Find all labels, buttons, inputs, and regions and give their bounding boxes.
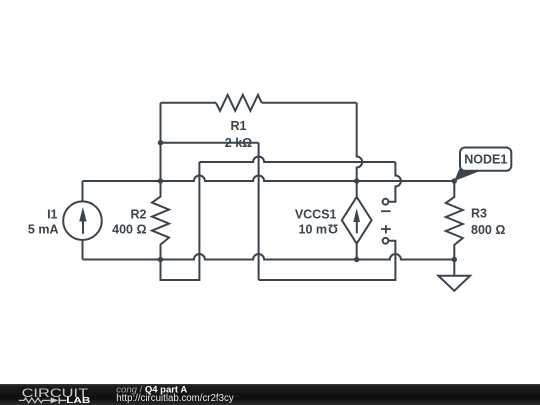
svg-text:NODE1: NODE1 — [464, 153, 507, 167]
wire: vertical x=199.4 down, left along y=280, up to bottom rail — [161, 162, 200, 280]
wire: vertical x=258.6 from y=142.7 down to y=280 — [258, 143, 260, 280]
junction node at (356.7,181) — [354, 178, 359, 183]
resistor R3 (vertical, with leads) — [446, 181, 463, 260]
wire: vertical from R1 right end down to top rail, with hop over y=162 wire — [357, 103, 363, 181]
svg-text:R2: R2 — [131, 207, 147, 221]
svg-text:800 Ω: 800 Ω — [471, 223, 505, 237]
wire: minus-control branch from y=162 corner down with hop over top rail — [388, 162, 401, 202]
svg-text:5 mA: 5 mA — [28, 222, 59, 236]
wire: top rail y=181 with hops over x=199.4 and x=258.6 — [83, 176, 455, 182]
current source I1 (circle) — [63, 201, 102, 240]
junction node at (356.7,259.5) — [354, 257, 359, 262]
arrow of current source I1 — [79, 207, 86, 234]
junction node at (160.5,259.5) — [158, 257, 163, 262]
node flag NODE1: rounded box — [460, 148, 511, 171]
VCCS1 minus control terminal (open circle) — [383, 199, 389, 205]
minus sign of VCCS1 control port — [381, 210, 391, 212]
wire: ground lead below bottom rail — [453, 260, 455, 276]
svg-text:Ω: Ω — [328, 222, 338, 236]
value label 10 m℧ (mho drawn as rotated ohm) — [299, 222, 339, 237]
wire: horizontal at y=142.7 from node to x=258.6 — [161, 142, 259, 144]
footer black bar — [0, 384, 540, 405]
svg-text:I1: I1 — [47, 207, 57, 221]
logo diode symbol — [51, 397, 67, 403]
VCCS1 plus control terminal (open circle) — [383, 238, 389, 244]
wire: plus-control branch down to y=280 and left to x=258.6 — [259, 241, 396, 280]
junction node at (454.3,259.5) — [452, 257, 457, 262]
arrow of VCCS1 — [353, 208, 360, 233]
svg-text:http://circuitlab.com/cr2f3cy: http://circuitlab.com/cr2f3cy — [116, 393, 234, 404]
svg-text:VCCS1: VCCS1 — [295, 207, 337, 221]
wire: vertical from R1 left end down to top rail (x=160.5) — [160, 103, 162, 181]
svg-text:400 Ω: 400 Ω — [112, 222, 146, 236]
logo resistor zigzag — [19, 398, 51, 403]
plus sign of VCCS1 control port — [381, 225, 391, 233]
wire: horizontal at y=162 with hop over x=258.6 — [199, 157, 395, 163]
wire: VCCS1 top lead from rail junction — [356, 181, 358, 197]
wire: I1 bottom lead — [82, 240, 84, 260]
wire: VCCS1 bottom lead to bottom rail — [356, 244, 358, 260]
resistor R1 (zigzag body) — [216, 95, 262, 111]
ground symbol — [438, 276, 470, 291]
wire: top horizontal right lead of R1 — [262, 102, 357, 104]
svg-text:R1: R1 — [231, 119, 247, 133]
VCCS1 dependent current source (diamond) — [342, 197, 372, 244]
svg-text:2 kΩ: 2 kΩ — [225, 136, 252, 150]
svg-text:10 m: 10 m — [299, 222, 328, 236]
wire: top horizontal left lead of R1 — [161, 102, 217, 104]
wire: bottom rail y=259.5 with hops over x=199.4, x=258.6, x=395.4 — [83, 254, 455, 259]
junction node at (160.5,142.7) — [158, 140, 163, 145]
junction node at (160.5,181) — [158, 178, 163, 183]
svg-text:R3: R3 — [471, 207, 487, 221]
node flag NODE1: pointer wedge — [454, 169, 481, 181]
resistor R2 (vertical, with leads) — [152, 181, 169, 260]
wire: I1 top lead — [82, 181, 84, 201]
svg-text:LAB: LAB — [66, 395, 90, 405]
junction node NODE1 at (454.3,181) — [452, 178, 457, 183]
